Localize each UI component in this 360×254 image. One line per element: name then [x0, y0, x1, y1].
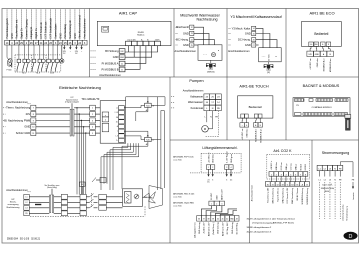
svg-text:BX Störung: BX Störung	[105, 49, 119, 53]
X1 terminal 24	[58, 40, 63, 45]
svg-text:L3: L3	[329, 180, 331, 182]
svg-text:DC Hzung.: DC Hzung.	[176, 38, 189, 42]
CO2 terminal row2 34	[290, 182, 295, 187]
svg-text:Anschlussklemmen: Anschlussklemmen	[183, 90, 204, 93]
X1 label line 5	[25, 10, 27, 41]
svg-text:24 VDC: 24 VDC	[211, 192, 213, 200]
Lueft dashed box	[200, 153, 202, 173]
svg-text:PI MODBUS A: PI MODBUS A	[102, 62, 119, 66]
CO2 terminal row1 7	[298, 172, 303, 177]
svg-text:12: 12	[191, 27, 193, 29]
EN col2 box 1	[90, 105, 96, 110]
BE TOUCH terminal 1	[241, 118, 244, 123]
X1 terminal 3	[73, 40, 78, 45]
svg-text:Anschlussklemmen: Anschlussklemmen	[251, 185, 254, 201]
Lueft big terminal 37	[201, 216, 206, 222]
svg-text:L1: L1	[116, 107, 118, 109]
svg-text:Signal 0-10V out: Signal 0-10V out	[276, 187, 279, 201]
Pumpen row Kaltwasser	[171, 96, 175, 98]
contact K1	[18, 45, 20, 59]
wire CAP bus row4	[125, 46, 140, 70]
svg-text:38-39 Lüftungsklemmen 2: 38-39 Lüftungsklemmen 2	[247, 226, 273, 229]
EN2 contact 1	[86, 196, 89, 198]
EN2 col4 box 1	[99, 194, 107, 199]
EN wire K2 A1 down	[122, 142, 148, 189]
svg-text:Lüftungsklemmen: Lüftungsklemmen	[194, 222, 197, 238]
X1 terminal 4	[9, 40, 14, 45]
svg-text:7: 7	[300, 174, 301, 176]
svg-text:36: 36	[198, 219, 200, 221]
24VDC arrow 4	[81, 45, 83, 47]
CO2 terminal row2 G	[285, 182, 290, 187]
EN terminal 7	[3, 107, 6, 109]
svg-text:& Signalverdoppler: & Signalverdoppler	[65, 100, 80, 103]
section divider vertical x312	[311, 140, 313, 243]
dashed group box 1	[14, 55, 16, 72]
X1 terminal 26	[48, 40, 53, 45]
EN2 contact 2	[86, 201, 89, 203]
svg-text:3,5: 3,5	[230, 180, 232, 182]
EN2 filter bars	[50, 195, 51, 213]
CAP terminal GND	[91, 56, 97, 58]
EN2 wire L1	[29, 196, 49, 198]
EN terminal 10	[3, 126, 6, 128]
svg-text:6: 6	[295, 174, 296, 176]
BE TOUCH terminal 2	[245, 118, 247, 123]
BACNET top pin strip 3	[316, 99, 333, 102]
EN col2 box 2	[90, 112, 96, 117]
X1 label line 6	[30, 10, 32, 41]
svg-text:25: 25	[191, 45, 193, 47]
Lueft arrow 1	[208, 169, 210, 174]
svg-text:El. Nachheizung PWM: El. Nachheizung PWM	[4, 118, 30, 122]
dashed group box 3	[45, 55, 47, 72]
svg-text:Kaltwasser: Kaltwasser	[190, 95, 203, 99]
section divider horizontal y140	[170, 139, 359, 141]
BE ECO pin 1	[309, 42, 314, 46]
svg-text:ADM abl 0-10V: ADM abl 0-10V	[207, 222, 210, 236]
MW actuator box	[198, 45, 222, 61]
CAP terminal 24V	[91, 50, 97, 52]
BACNET plug wire	[347, 116, 349, 117]
EN TFC sub-box 2	[102, 123, 109, 132]
svg-text:L2: L2	[26, 202, 28, 204]
MW terminal 24	[176, 39, 179, 41]
CO2 terminal row2 30	[265, 182, 270, 187]
svg-text:N1.8: N1.8	[36, 73, 40, 75]
EN2 dashed bottom link	[30, 216, 145, 218]
svg-text:MODBUS A or: MODBUS A or	[255, 128, 258, 141]
EN TFC pin L1.8	[119, 110, 125, 114]
svg-text:2: 2	[92, 114, 93, 116]
24VDC arrow 2	[69, 45, 71, 47]
EN wires pins to relays	[124, 105, 144, 107]
Y3 terminal 27	[229, 44, 232, 46]
svg-text:DC Strg. 24V: DC Strg. 24V	[226, 222, 229, 234]
svg-text:10: 10	[32, 127, 34, 129]
AIR1 CAP unit box	[97, 21, 171, 45]
svg-text:34: 34	[291, 184, 293, 186]
svg-text:GND Leitung: GND Leitung	[217, 223, 220, 235]
svg-text:GND: GND	[216, 195, 218, 200]
svg-text:AIR1900EL GQ24 HB1: AIR1900EL GQ24 HB1	[173, 202, 194, 205]
Y3 terminal 15	[229, 33, 232, 35]
svg-text:D: D	[349, 234, 353, 240]
svg-text:3: 3	[221, 203, 222, 205]
svg-text:GND: GND	[120, 57, 125, 59]
svg-text:EXT Schaltkontakt: EXT Schaltkontakt	[50, 18, 53, 39]
svg-text:D4.8: D4.8	[50, 73, 54, 75]
BE TOUCH terminal 4	[259, 118, 261, 123]
EN2 bold stub	[35, 204, 41, 206]
EN2 heater box	[123, 189, 143, 207]
svg-text:▲: ▲	[275, 55, 277, 58]
Y3 terminal 26	[229, 39, 232, 41]
svg-text:( Temperaturausgang AIR1900L-P: ( Temperaturausgang AIR1900L-PTP S103 )	[252, 222, 294, 225]
svg-text:GND blau: GND blau	[247, 129, 249, 138]
MW wire 2	[194, 33, 209, 44]
svg-text:ADM 0-10V: ADM 0-10V	[221, 189, 224, 200]
svg-text:AIR1900EL HGC S 105: AIR1900EL HGC S 105	[173, 193, 195, 196]
svg-text:EXT Schalt ein: EXT Schalt ein	[40, 22, 43, 39]
svg-text:3: 3	[92, 120, 93, 122]
svg-text:GND grau: GND grau	[231, 154, 233, 163]
X1 label line 11	[55, 10, 57, 41]
X1 label line 16	[79, 10, 81, 41]
svg-text:EXT Schalt aus: EXT Schalt aus	[45, 21, 48, 39]
svg-text:400V~: 400V~	[324, 191, 331, 193]
X1 label line 12	[59, 10, 61, 41]
MW plug symbol	[210, 60, 212, 63]
X1 label line 4	[21, 10, 23, 41]
EN2 col4 box 2	[99, 200, 107, 205]
X1 terminal 27	[34, 40, 39, 45]
svg-text:3N/400V/16 A,: 3N/400V/16 A,	[321, 187, 335, 190]
svg-text:Nachheizung: Nachheizung	[7, 207, 21, 209]
X1 terminal 24	[39, 40, 44, 45]
EN2 col4 box 3	[99, 205, 107, 210]
EN terminal 9	[3, 120, 6, 122]
BE TOUCH Bedienteil box	[238, 96, 273, 118]
svg-text:Anschlussklemme: Anschlussklemme	[84, 18, 87, 39]
svg-text:14: 14	[253, 28, 255, 30]
wire CAP bus row1	[127, 46, 129, 52]
BACNET top pin strip 1	[295, 99, 305, 102]
X1 label line 8	[40, 10, 42, 41]
svg-text:GND: GND	[11, 33, 14, 39]
EN2 terminal PE	[24, 211, 30, 216]
Strom terminal L1	[317, 165, 322, 170]
EN2 terminal L1	[24, 194, 30, 199]
svg-text:GND: GND	[74, 33, 77, 39]
svg-text:4: 4	[92, 127, 93, 129]
BACNET top pin strip 2	[309, 99, 313, 102]
BE TOUCH terminal 3	[255, 118, 258, 123]
svg-text:2: 2	[216, 203, 217, 205]
AIR1 CAP terminal row	[126, 41, 132, 46]
svg-text:GND Leitung: GND Leitung	[198, 223, 201, 235]
X1 label line 2	[11, 10, 13, 41]
svg-text:Nachheizung: Nachheizung	[197, 18, 218, 22]
svg-text:GND gr: GND gr	[294, 164, 297, 171]
EN2 sensor circle	[134, 194, 139, 199]
svg-text:32: 32	[277, 184, 279, 186]
revision mark D	[344, 232, 358, 240]
svg-text:Eingang in: Eingang in	[30, 26, 33, 38]
svg-text:0-10V ws: 0-10V ws	[281, 162, 283, 170]
EN2 col3 box 4	[80, 211, 86, 216]
svg-text:a: a	[105, 115, 106, 117]
CO2 dashed enclosure	[266, 155, 268, 180]
svg-text:GND: GND	[24, 125, 30, 129]
svg-text:Mischventil: Mischventil	[176, 25, 189, 29]
svg-text:1: 1	[271, 174, 272, 176]
EN TFC pin 2+	[119, 138, 125, 142]
Lueft arrow 4	[230, 169, 232, 174]
svg-text:Rauchmelder ext.: Rauchmelder ext.	[16, 19, 19, 39]
svg-text:N1.2: N1.2	[22, 73, 26, 75]
contact K7	[48, 45, 50, 59]
X1 terminal 14	[5, 40, 10, 45]
section divider vertical x249.5	[249, 140, 251, 243]
svg-text:24: 24	[191, 40, 193, 42]
EN terminal 8	[3, 113, 6, 115]
svg-text:(NMS-M): (NMS-M)	[207, 72, 215, 74]
EN2 wire2 1	[54, 196, 62, 198]
dashed bottom link	[15, 71, 61, 73]
EN wire down 1	[113, 143, 128, 190]
svg-text:(Zuluft-Temp.): (Zuluft-Temp.)	[212, 222, 215, 235]
svg-text:AIR1 CAP: AIR1 CAP	[119, 11, 138, 16]
EN TFC box	[100, 101, 126, 144]
section divider vertical x170	[169, 77, 171, 243]
svg-text:+: +	[242, 125, 243, 127]
svg-text:L1: L1	[319, 168, 321, 170]
EN2 fuse box top	[100, 178, 106, 183]
svg-text:GND blau: GND blau	[276, 162, 278, 170]
svg-text:43: 43	[236, 219, 238, 221]
CO2 terminal row1 4	[284, 172, 289, 177]
BE ECO terminal 1	[309, 46, 312, 51]
svg-text:15: 15	[253, 33, 255, 35]
svg-text:Zuleitung bauseitig: Zuleitung bauseitig	[342, 205, 345, 221]
contact K3	[27, 45, 29, 59]
svg-text:L1: L1	[319, 180, 321, 182]
MW wire 1	[194, 27, 204, 45]
CO2 terminal row1 3	[279, 172, 284, 177]
AIR1 CAP display icon	[102, 26, 109, 32]
BE ECO pin 4	[326, 42, 331, 46]
BE ECO terminal 2	[315, 46, 318, 51]
svg-text:GND: GND	[315, 54, 320, 56]
EN signal doubler	[70, 109, 71, 136]
Y3 actuator box	[259, 48, 282, 62]
svg-text:Schütz GND: Schütz GND	[16, 131, 31, 135]
Lueft big terminal 39	[211, 216, 216, 222]
EN TFC pin 1U	[119, 120, 125, 124]
sensor PT100	[7, 58, 13, 66]
CAP terminal A	[91, 63, 97, 65]
Y3 wire 4	[256, 44, 259, 46]
BE TOUCH pin 3	[254, 114, 258, 118]
EN bundle wires down	[76, 108, 78, 195]
EN2 wire to fan	[143, 196, 148, 198]
EN TFC pin A	[119, 124, 125, 128]
EN2 box above col3	[80, 182, 86, 186]
svg-text:55600 004 SG-1.0 B 02.06.2: 55600 004 SG-1.0 B 02.06.21	[7, 238, 41, 240]
contact K9	[56, 45, 58, 59]
EN col2 box 5	[90, 131, 96, 136]
svg-text:Bedienteil: Bedienteil	[249, 105, 263, 109]
svg-text:GND: GND	[183, 31, 189, 35]
CO2 terminal row2 A	[300, 182, 305, 187]
EN wire row 4	[36, 126, 70, 128]
svg-text:27: 27	[253, 45, 255, 47]
Lueft arrow 2	[212, 169, 214, 174]
svg-text:2+: 2+	[116, 140, 118, 142]
svg-text:CO2 sig: CO2 sig	[291, 163, 293, 170]
Strom terminal PE	[338, 165, 343, 170]
X1 terminal 29	[19, 40, 24, 45]
Pumpen dashed PE wire	[217, 111, 219, 137]
dashed link line K coils	[15, 54, 61, 56]
BE TOUCH pin 1	[241, 114, 245, 118]
section divider vertical x174	[173, 9, 175, 78]
svg-text:GND Signalleitung: GND Signalleitung	[281, 188, 284, 204]
X1 label line 10	[50, 10, 52, 41]
svg-text:b: b	[105, 120, 106, 122]
X1 label line 15	[74, 10, 76, 41]
EN2 terminal L2	[24, 200, 30, 205]
svg-text:PT100: PT100	[7, 70, 12, 72]
svg-text:MODBUS B ws: MODBUS B ws	[330, 59, 332, 73]
svg-text:PI MODBUS B: PI MODBUS B	[101, 67, 118, 71]
EN TFC pin T	[119, 129, 125, 133]
Y3 terminal 14	[229, 27, 232, 29]
svg-text:2: 2	[212, 167, 213, 169]
X1 terminal 24	[14, 40, 19, 45]
MW wire 4	[194, 44, 198, 46]
svg-text:1: 1	[92, 108, 93, 110]
EN2 col2 box 1	[61, 194, 67, 199]
svg-text:4: 4	[231, 167, 232, 169]
svg-text:F4: F4	[81, 184, 83, 186]
svg-text:GND Sensorleitung: GND Sensorleitung	[291, 188, 294, 204]
EN2 heater element	[125, 192, 132, 204]
BACNET controller box	[293, 98, 350, 117]
Lueft big terminal 42	[225, 216, 230, 222]
EN wire down 3	[107, 143, 133, 184]
BACNET bottom pin strip 3	[334, 113, 348, 116]
svg-text:40: 40	[217, 219, 219, 221]
relay K1	[145, 103, 152, 107]
svg-text:Anschlussklemmen: Anschlussklemmen	[228, 50, 250, 53]
svg-text:2: 2	[276, 174, 277, 176]
CAP terminal B	[91, 68, 97, 70]
CO2 terminal row2 B	[305, 182, 310, 187]
contact K4	[33, 45, 35, 59]
svg-text:BACNET & MODBUS: BACNET & MODBUS	[303, 84, 340, 88]
svg-text:DC Hzung.: DC Hzung.	[238, 38, 251, 42]
svg-text:GND blau: GND blau	[317, 59, 319, 68]
svg-text:+24 VDC sw: +24 VDC sw	[310, 58, 312, 70]
X1 label line 14	[69, 10, 71, 41]
svg-text:33: 33	[281, 184, 283, 186]
svg-text:MOD B: MOD B	[305, 163, 307, 170]
pump M1	[202, 126, 209, 133]
svg-text:26: 26	[253, 40, 255, 42]
svg-text:7: 7	[33, 108, 34, 110]
BE ECO terminal 4	[328, 46, 330, 51]
svg-text:B: B	[328, 44, 329, 46]
svg-text:L.8: L.8	[116, 136, 118, 138]
svg-text:xxxxx 9000: xxxxx 9000	[173, 159, 182, 161]
EN terminal 11	[3, 132, 6, 134]
svg-text:Kondensat: Kondensat	[191, 106, 204, 110]
svg-text:35: 35	[296, 184, 298, 186]
EN right vertical wires	[157, 97, 159, 190]
wire X1-1 down	[6, 45, 8, 58]
svg-text:GND blau: GND blau	[213, 154, 215, 163]
svg-text:L1: L1	[26, 197, 28, 199]
X1 terminal 3	[82, 40, 87, 45]
EN2 contact 3	[86, 207, 89, 209]
BE TOUCH pin 4	[258, 114, 262, 118]
EN top rail	[126, 96, 165, 98]
svg-text:+24 VDC sw: +24 VDC sw	[242, 128, 244, 140]
svg-text:4: 4	[285, 174, 286, 176]
X1 terminal 26	[68, 40, 73, 45]
Strom PE hook wire	[340, 162, 353, 177]
section divider vertical x227	[226, 9, 228, 141]
Strom terminal N	[333, 165, 338, 170]
svg-text:MODBUS A Leitung: MODBUS A Leitung	[301, 188, 304, 205]
svg-text:1: 1	[211, 203, 212, 205]
MW terminal 25	[176, 44, 179, 46]
svg-text:IND Meldung: IND Meldung	[64, 24, 67, 39]
Lueft big terminal GND	[230, 216, 235, 222]
svg-text:Y3 Mischventil Kaltwasserzulau: Y3 Mischventil Kaltwasserzulauf	[230, 15, 281, 19]
svg-text:M: M	[212, 53, 214, 57]
Strom terminal L2	[322, 165, 327, 170]
svg-text:3: 3	[281, 174, 282, 176]
EN wire down 5	[101, 143, 139, 190]
Y3 wire 3	[256, 40, 277, 48]
EN2 fan housing	[149, 186, 163, 209]
CO2 terminal row2 33	[280, 182, 285, 187]
Lueft big terminal 36	[197, 216, 202, 222]
svg-text:Modbus: Modbus	[137, 35, 144, 37]
svg-text:DC 24V Strg.: DC 24V Strg.	[235, 222, 238, 234]
X1 terminal 3	[53, 40, 58, 45]
svg-text:MODBUS B Leitung: MODBUS B Leitung	[306, 188, 309, 205]
Lueft big terminal 43	[234, 216, 239, 222]
svg-text:11: 11	[32, 133, 34, 135]
dashed group box 2	[31, 55, 33, 72]
contact K2	[24, 45, 26, 59]
svg-text:30: 30	[267, 184, 269, 186]
EN2 wire2 3	[54, 207, 62, 209]
wire CAP bus row3	[125, 46, 146, 64]
MW terminal 12	[176, 26, 179, 28]
svg-text:L1.8: L1.8	[115, 112, 118, 114]
EN2 col2 box 3	[61, 205, 67, 210]
EN wires relays right	[151, 97, 165, 106]
svg-text:MODBUS B ws: MODBUS B ws	[260, 129, 262, 143]
EN2 wire2 2	[54, 201, 62, 203]
CO2 stub wires	[270, 176, 272, 182]
svg-text:39: 39	[212, 219, 214, 221]
